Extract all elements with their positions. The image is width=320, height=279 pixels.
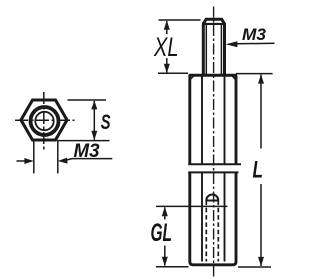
tapped hole hidden line right bbox=[217, 201, 219, 262]
vertical centerline bbox=[43, 92, 45, 151]
M3 stud outline bbox=[203, 19, 224, 75]
L dimension line bbox=[260, 75, 262, 149]
thread root line left bbox=[205, 25, 207, 75]
M3 extension line right below hex bbox=[57, 141, 59, 173]
hex end view outline bbox=[21, 100, 67, 140]
S dimension extension line top bbox=[68, 99, 107, 101]
break line lower bbox=[188, 171, 238, 173]
XL extension line bottom bbox=[158, 72, 188, 74]
L extension line bottom bbox=[238, 266, 271, 268]
M3 extension line left below hex bbox=[33, 141, 35, 173]
drill point dome bbox=[206, 195, 218, 201]
GL arrow up bbox=[162, 207, 168, 216]
GL dimension line bbox=[164, 207, 166, 219]
M3 arrow left pointing right bbox=[17, 160, 27, 162]
L extension line top bbox=[236, 73, 273, 75]
body facet edge right lower bbox=[224, 172, 226, 261]
XL arrow down bbox=[164, 64, 170, 73]
L arrow down bbox=[258, 257, 264, 266]
GL arrow down bbox=[162, 257, 168, 266]
S dimension arrow up bbox=[91, 100, 97, 109]
S dimension extension line bottom bbox=[57, 140, 110, 142]
M3 leader arrow side view bbox=[226, 41, 238, 47]
body outer edge right upper bbox=[235, 75, 238, 164]
XL dimension line bbox=[166, 21, 168, 34]
body top shoulder bbox=[189, 74, 237, 77]
svg-text:M3: M3 bbox=[242, 25, 267, 44]
S dimension arrow down bbox=[91, 131, 97, 140]
body top chamfer right bbox=[232, 75, 236, 80]
svg-text:M3: M3 bbox=[74, 140, 100, 162]
GL extension line bottom bbox=[156, 266, 189, 268]
M3 leader arrow pointing left bbox=[67, 159, 113, 160]
body top chamfer left bbox=[190, 75, 194, 80]
horizontal centerline bbox=[15, 119, 75, 121]
body lower section outline bbox=[190, 172, 236, 264]
svg-text:XL: XL bbox=[153, 32, 178, 62]
body outer edge left upper bbox=[188, 75, 191, 164]
S dimension line bbox=[93, 101, 95, 140]
body facet edge left lower bbox=[201, 172, 203, 261]
inner circle (M3 thread hole) bbox=[35, 112, 53, 130]
XL arrow up bbox=[164, 20, 170, 29]
break line upper bbox=[188, 163, 241, 165]
thread root line right bbox=[220, 25, 222, 75]
outer circle (body diameter) bbox=[31, 107, 59, 135]
GL extension line top bbox=[156, 205, 228, 207]
M3 leader line side view bbox=[237, 42, 275, 45]
centerline axis of side view bbox=[213, 7, 215, 278]
svg-text:GL: GL bbox=[151, 219, 173, 247]
svg-text:L: L bbox=[253, 157, 264, 184]
body facet edge left upper bbox=[201, 77, 203, 165]
body facet edge right upper bbox=[224, 77, 226, 165]
stud chamfer line bbox=[203, 23, 224, 25]
L arrow up bbox=[258, 74, 264, 83]
XL extension line top bbox=[159, 19, 201, 21]
thread end line bbox=[206, 200, 219, 202]
tapped hole hidden line left bbox=[205, 201, 207, 262]
svg-text:S: S bbox=[101, 111, 111, 134]
